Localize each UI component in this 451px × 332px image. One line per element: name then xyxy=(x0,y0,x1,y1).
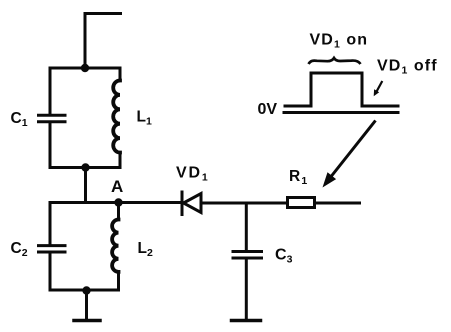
svg-text:0V: 0V xyxy=(258,101,278,118)
svg-text:A: A xyxy=(111,177,123,196)
